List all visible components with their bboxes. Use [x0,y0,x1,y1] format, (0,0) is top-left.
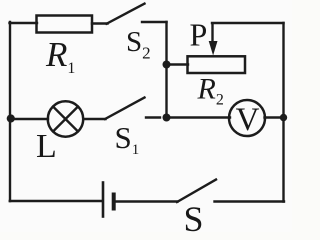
node A junction dot [163,61,171,69]
switch S2 blade [107,4,145,24]
node D junction dot [7,114,15,122]
svg-text:P: P [190,17,208,53]
wire: switch S stub / bottom-right horizontal [215,200,285,202]
lamp L cross diagonal 1 [53,107,78,132]
wire: R1 right terminal [92,22,108,24]
lamp L cross diagonal 2 [53,107,78,132]
switch S1 fixed contact stub [146,116,160,118]
node B junction dot [280,114,287,121]
switch S2 fixed contact stub [142,21,167,23]
lamp L circle [48,101,83,136]
node C junction dot [163,114,171,122]
wire: battery to switch S [115,200,178,202]
wire: top-right horizontal [212,22,284,24]
wire: node C to voltmeter left terminal [167,116,231,118]
switch S blade [177,180,216,203]
wire: lamp right terminal [84,118,106,120]
wire: node A to R2 left terminal [167,63,189,65]
wire: bottom-left horizontal [10,200,102,202]
switch S1 blade [105,98,145,120]
battery negative plate (short thick) [112,195,116,209]
svg-text:L: L [36,128,57,165]
wire: lamp left terminal [10,118,48,120]
resistor R1 [37,16,93,33]
voltmeter U1 circle [229,100,265,136]
wire: top-left horizontal to R1 [10,22,38,24]
wire: voltmeter right terminal [265,116,284,118]
battery positive plate (long) [102,183,105,217]
svg-text:V: V [236,102,260,138]
slider arrowhead on R2 [209,41,218,56]
svg-text:S: S [184,199,204,232]
wire: middle vertical from S2 down to lamp row [165,22,167,118]
wire: right vertical [282,23,284,202]
wire: slider P arrow shaft [211,24,213,45]
wire: left vertical [9,22,11,201]
rheostat R2 body [188,56,246,73]
